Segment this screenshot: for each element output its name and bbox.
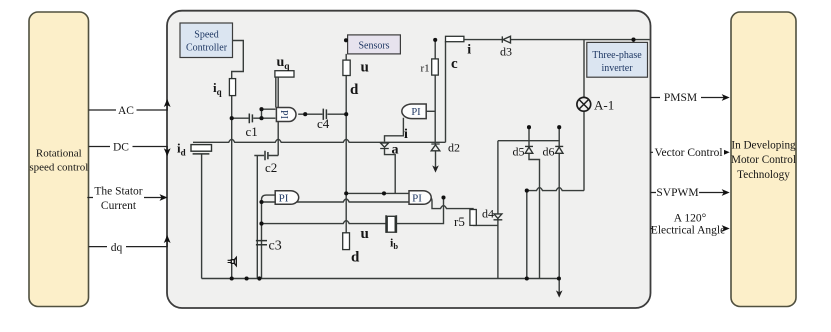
arrow PMSM right [722,94,730,101]
arrow SVPWM right [722,189,730,196]
svg-text:A-1: A-1 [594,98,614,113]
label dq [107,239,126,253]
bottom bus [202,278,559,280]
wire sensors column [345,54,347,233]
diode d4 [494,214,503,220]
right panel: In Developing Motor Control Technology [731,12,796,307]
resistor iq [229,79,235,96]
wire ib to riser [396,198,443,224]
wire gate PI-right output to r1 column [426,110,435,112]
wire d6 top link [498,141,559,147]
label DC [110,140,133,153]
svg-text:PI: PI [412,193,422,205]
svg-text:d: d [350,82,359,98]
svg-text:u: u [361,226,369,242]
node dot top wire inverter [631,38,635,42]
component id [191,145,212,152]
svg-text:c4: c4 [317,116,330,131]
wire d4 column [497,141,499,279]
label PMSM [660,91,701,104]
main gray block [167,11,651,308]
main bus [193,139,446,142]
svg-text:Technology: Technology [737,169,790,181]
label A 120 Electrical Angle [652,211,725,236]
svg-text:d2: d2 [448,141,460,155]
svg-text:i: i [467,43,471,58]
wire bus corner up to c box [445,41,447,142]
wire ib feed [262,221,387,224]
wire diode a L [385,149,396,194]
svg-text:c3: c3 [269,239,282,254]
wire r1 column [434,40,436,144]
node c1 right lower [259,116,263,120]
diode d2 [431,144,440,151]
svg-text:i: i [404,127,408,142]
wire c4 net [298,113,346,115]
wire gate2 output to r5 [431,197,473,209]
node bottom bus 5 [557,276,561,280]
svg-text:Vector Control: Vector Control [654,147,722,159]
wire inverter stub [633,40,635,43]
svg-text:c: c [451,56,458,72]
svg-text:d6: d6 [543,145,555,159]
svg-text:Rotational: Rotational [36,148,82,160]
svg-text:Three-phase: Three-phase [592,50,642,61]
wire speed-controller to iq [232,41,244,79]
wire dot-column x526.8 [526,191,528,279]
resistor under sensors [343,60,350,75]
arrow dq up [164,235,171,243]
node c4 right [344,112,348,116]
component A-1 circle-X [577,97,591,111]
wire A-1 column top [583,40,585,98]
svg-text:The Stator: The Stator [94,186,142,198]
svg-text:a: a [392,143,399,158]
wire Vector Control [651,151,728,153]
label SVPWM [656,186,699,199]
resistor u/d lower [343,233,350,250]
wire The Stator Current [87,197,165,199]
wire long line gate1 to gate2 [262,199,410,202]
svg-text:A 120°: A 120° [674,213,707,225]
resistor r5 [470,210,476,226]
gate PI top (rotated) [276,108,296,122]
node bottom bus 3 [257,276,261,280]
diode d5 [525,146,533,153]
wire uq column through gate to c2 [254,122,278,156]
box Sensors [348,35,401,54]
arrow A120 right [722,225,730,232]
svg-text:PI: PI [411,107,421,118]
svg-text:u: u [361,60,369,76]
component c bar (top) [446,36,464,41]
svg-text:d3: d3 [500,45,512,59]
arrow DC down [164,148,171,156]
node y193 left [344,191,348,195]
wire SVPWM [651,192,728,194]
node y190 left [525,189,529,193]
svg-text:r1: r1 [421,63,430,75]
node line2 upper [259,200,263,204]
gate PI 2 (lower right) [409,191,431,205]
node c1 right upper [259,107,263,111]
svg-text:Speed: Speed [194,30,218,41]
node y193 mid [382,191,386,195]
capacitor c4 [323,109,326,120]
wire DC [89,147,168,155]
node riser top [441,195,445,199]
label The Stator Current [93,184,144,211]
arrow Vector Control right [722,149,730,156]
svg-text:SVPWM: SVPWM [656,187,698,199]
svg-text:c1: c1 [246,124,258,139]
svg-text:d5: d5 [513,145,525,159]
speaker symbol on iq column [228,260,232,262]
wire d6 top dot stub [558,127,560,141]
wire PMSM [651,97,728,99]
svg-text:PI: PI [279,193,289,205]
arrow d6 down [556,290,563,297]
diode a [380,143,389,149]
svg-text:c2: c2 [265,160,277,175]
wire PI-right gate to a diode [385,118,404,142]
svg-text:In Developing: In Developing [731,140,796,152]
node c4 left [303,112,307,116]
arrow d2 down [432,165,439,172]
wire iq column down to bottom bus [231,96,233,279]
wire uq double drop [276,77,278,107]
capacitor c1 [249,114,252,124]
svg-text:PI: PI [278,110,289,119]
box Three-phase inverter [587,42,648,77]
wire d2 tail [435,151,437,168]
gate PI right (round-left) [402,104,426,119]
node line2 lower [259,222,263,226]
wire c1 net [232,109,276,118]
svg-text:Motor Control: Motor Control [731,154,796,166]
box Speed Controller [180,23,233,58]
svg-text:d: d [351,250,360,266]
svg-text:speed control: speed control [29,161,88,173]
node bottom bus 2 [245,276,249,280]
wire top line c to d3 to border [464,39,650,41]
node bottom bus 1 [230,276,234,280]
label Vector Control [653,146,724,159]
svg-text:Electrical Angle: Electrical Angle [651,225,725,237]
node dot d5 top [527,125,531,129]
wire r5 bottom to d4 column [473,224,498,226]
svg-text:PMSM: PMSM [664,92,697,104]
wire d5 descender [529,154,540,279]
component ib [386,215,396,233]
wire y193.5 to gate2 [346,192,409,194]
svg-text:dq: dq [111,242,123,254]
svg-text:inverter: inverter [601,63,633,74]
wire c2 to c3 column [256,156,258,279]
diode d3 [502,36,510,43]
node dot r1 top [433,38,437,42]
wire A-1 column bottom to y190.6 [583,111,585,191]
resistor r1 [432,59,439,75]
wire d6 below bus tail [558,279,560,293]
wire id drop [201,154,203,279]
svg-text:Sensors: Sensors [358,40,389,51]
capacitor c3 [256,241,267,245]
wire d5 top stub [528,127,530,146]
gate PI 1 (lower left) [275,191,299,205]
svg-text:d4: d4 [482,207,494,221]
node dot at sensors left edge [344,38,348,42]
wire A 120 Electrical Angle [651,228,728,230]
component uq bar [275,71,294,77]
node c1 left [230,116,234,120]
node dot d6 top [557,125,561,129]
wire dq [89,237,168,247]
arrow AC up [164,99,171,107]
svg-text:Controller: Controller [186,43,228,54]
left panel: Rotational speed control [29,12,89,307]
arrow Stator right [160,194,168,201]
wire d6 descender [558,154,560,279]
wire y190.6 with hops [527,188,584,191]
node bottom bus 4 [525,276,529,280]
svg-text:r5: r5 [454,214,465,229]
svg-text:DC: DC [113,141,129,153]
wire AC [89,101,168,110]
svg-text:Current: Current [101,200,137,212]
label AC [116,103,137,116]
diode d6 [555,146,563,153]
svg-text:AC: AC [118,105,134,117]
wire line2 gate1 feed column [262,195,276,278]
capacitor c2 [265,151,268,161]
